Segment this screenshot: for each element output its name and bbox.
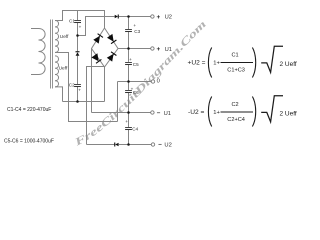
svg-text:–: – xyxy=(157,110,161,117)
wire: C2 bottom to AC2 line xyxy=(77,87,79,102)
junction C2 bottom / AC2 xyxy=(76,100,79,103)
svg-text:2 Ueff: 2 Ueff xyxy=(280,110,297,117)
svg-text:C1: C1 xyxy=(69,18,75,23)
formula +U2 xyxy=(188,46,297,77)
svg-text:2 Ueff: 2 Ueff xyxy=(280,61,297,68)
capacitor C3 xyxy=(125,30,132,32)
transformer secondary winding 1 (Ueff) xyxy=(55,21,59,53)
wire: AC2 horizontal xyxy=(63,101,105,103)
svg-text:-U2 =: -U2 = xyxy=(188,109,204,116)
svg-text:C1+C3: C1+C3 xyxy=(227,67,245,73)
transformer core xyxy=(51,20,53,89)
svg-text:C1: C1 xyxy=(232,52,239,58)
diode D6 (bottom rail, points left) xyxy=(114,143,118,147)
terminal +U2 xyxy=(151,14,172,21)
terminal -U2 xyxy=(151,141,172,148)
wire: bridge left corner drop xyxy=(91,49,93,113)
wire: drop from top wire to C1 xyxy=(77,11,79,21)
terminal 0 xyxy=(151,79,160,85)
wire: -U1 rail from bridge left corner drop xyxy=(92,112,151,114)
bridge diode D3 (bottom-left arm) xyxy=(91,53,101,63)
junction -U2 rail / C4 xyxy=(127,143,130,146)
capacitor C5 xyxy=(125,63,132,65)
svg-text:+: + xyxy=(157,14,161,21)
svg-text:C5: C5 xyxy=(133,62,139,67)
bridge diode D2 (top-right arm) xyxy=(107,34,116,44)
svg-text:C1-C4 = 220-470uF: C1-C4 = 220-470uF xyxy=(7,107,51,113)
terminal +U1 xyxy=(151,46,172,53)
capacitor C4 xyxy=(125,128,132,130)
wire: secondary2 bottom lead xyxy=(55,87,63,102)
svg-text:0: 0 xyxy=(157,79,160,85)
wire: bottom rail riser up to bridge bottom corner xyxy=(87,67,105,145)
bridge rectifier diamond xyxy=(92,28,119,67)
junction +U2 rail / C3 xyxy=(127,15,130,18)
bridge diode D1 (top-left arm) xyxy=(93,34,103,44)
svg-text:U2: U2 xyxy=(165,15,172,21)
capacitor C6 xyxy=(125,91,132,93)
wire: C6 column xyxy=(128,82,130,91)
svg-text:C2+C4: C2+C4 xyxy=(227,117,245,123)
wire: +U1 rail from bridge right corner xyxy=(118,48,151,50)
svg-text:+: + xyxy=(79,25,82,30)
wire: C3 column from +U2 rail xyxy=(128,17,130,30)
junction 0 rail / C5-C6 xyxy=(127,80,130,83)
wire: +U2 rail after diode D5 xyxy=(119,16,151,18)
formula -U2 xyxy=(188,96,297,127)
transformer T1 primary winding xyxy=(31,29,45,75)
terminal -U1 xyxy=(151,110,171,117)
svg-text:C3: C3 xyxy=(134,29,140,34)
svg-text:1+: 1+ xyxy=(213,61,220,67)
svg-text:1+: 1+ xyxy=(213,110,220,116)
diode D5 (top rail, points right) xyxy=(115,15,119,19)
svg-text:+: + xyxy=(78,88,81,93)
wire: node A to +U2 rail riser xyxy=(78,17,115,36)
svg-text:U2: U2 xyxy=(164,142,171,148)
wire: C5 column xyxy=(128,49,130,62)
wire: D7 to C2 top xyxy=(77,56,79,85)
svg-text:U1: U1 xyxy=(165,47,172,53)
wire: center tap lead, down and CT bus to 0 drop xyxy=(55,53,118,122)
wire: node A down to diode D7 xyxy=(77,36,79,52)
svg-text:+: + xyxy=(133,23,136,28)
junction dots xyxy=(76,15,130,146)
svg-text:C6: C6 xyxy=(133,90,139,95)
junction +U1 rail / C3-C5 xyxy=(127,47,130,50)
wire: C1 bottom to node A xyxy=(77,23,79,36)
junction -U1 rail / C6-C4 xyxy=(127,111,130,114)
transformer secondary winding 2 (Ueff) xyxy=(55,56,59,87)
node A junction xyxy=(76,34,79,37)
bridge diode D4 (bottom-right arm) xyxy=(107,52,117,62)
svg-text:+: + xyxy=(129,57,132,62)
svg-text:Ueff: Ueff xyxy=(59,66,68,72)
diode D7 (mid vertical, points up) xyxy=(76,51,80,56)
wire: 0 rail xyxy=(118,81,152,83)
wire: bridge bottom corner drop to AC2 line xyxy=(104,67,106,102)
svg-text:C2: C2 xyxy=(232,102,239,108)
svg-text:C2: C2 xyxy=(69,82,75,87)
svg-text:C5-C6 = 1000-4700uF: C5-C6 = 1000-4700uF xyxy=(4,139,54,145)
svg-text:U1: U1 xyxy=(164,111,171,117)
wire: C3 bottom to +U1 rail xyxy=(128,32,130,49)
svg-text:–: – xyxy=(158,141,162,148)
capacitor C1 xyxy=(74,21,81,23)
svg-text:C4: C4 xyxy=(132,126,138,131)
svg-text:+: + xyxy=(131,86,134,91)
capacitor C2 xyxy=(74,85,81,87)
svg-text:+U2 =: +U2 = xyxy=(188,60,206,67)
wire: -U2 bottom rail xyxy=(87,144,115,146)
wire: 0 rail drop to CT bus xyxy=(117,82,119,122)
wire: C4 column xyxy=(128,113,130,128)
svg-text:Ueff: Ueff xyxy=(60,34,69,40)
svg-text:+: + xyxy=(157,46,161,53)
svg-text:+: + xyxy=(125,119,128,124)
wire: secondary1 top lead to top node and bridge top corner xyxy=(55,11,105,29)
